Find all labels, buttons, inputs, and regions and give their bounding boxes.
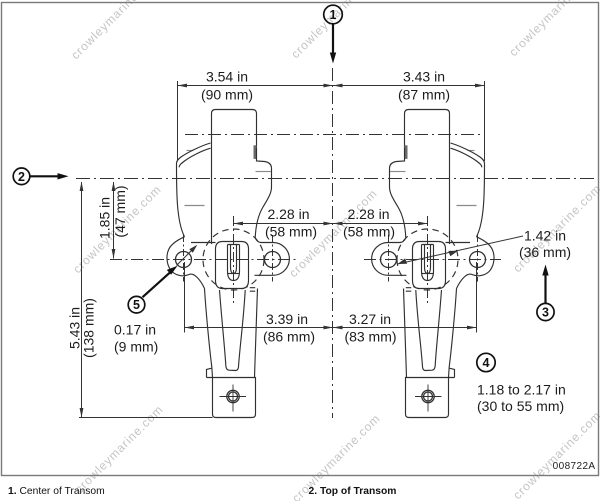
svg-text:1.85 in: 1.85 in (97, 197, 113, 239)
svg-text:5: 5 (133, 298, 140, 312)
dim line 5.43 vertical (81, 182, 83, 418)
foot bolt crosshair (220, 385, 247, 412)
arrowhead 1.42 upper-right (448, 251, 458, 257)
svg-text:(58 mm): (58 mm) (343, 223, 395, 239)
gray tick right (256, 171, 272, 173)
foot bolt inner (229, 392, 238, 401)
right bracket left ear hole vertical tick (388, 235, 390, 282)
svg-text:(90 mm): (90 mm) (201, 87, 253, 103)
svg-text:(83 mm): (83 mm) (344, 328, 396, 344)
leg joint ticks (250, 288, 255, 292)
left wing upper curve (177, 143, 211, 164)
svg-text:(9 mm): (9 mm) (114, 339, 158, 355)
left bracket right step and neck (255, 148, 271, 238)
arrowhead 1.42 lower-left (398, 258, 408, 264)
dim line 1.85 vertical (113, 182, 115, 259)
svg-text:1: 1 (330, 8, 337, 22)
callouts (13, 5, 554, 371)
right slot vertical centerline (427, 216, 429, 304)
svg-text:2.28 in: 2.28 in (347, 206, 389, 222)
gray tick left (185, 205, 205, 207)
right bracket hole horizontal centerline (364, 259, 501, 261)
left ear hole (176, 252, 192, 268)
leader 1.42 (398, 236, 524, 264)
arrowhead 2.28L right (324, 222, 334, 226)
left bracket hole horizontal centerline (110, 259, 299, 261)
svg-text:3.27 in: 3.27 in (349, 311, 391, 327)
left ear hole vertical tick (183, 235, 185, 282)
svg-text:(58 mm): (58 mm) (265, 223, 317, 239)
arrowhead 3.43 right (475, 84, 485, 88)
svg-text:(36 mm): (36 mm) (519, 244, 571, 260)
svg-text:3.39 in: 3.39 in (266, 311, 308, 327)
svg-text:(138 mm): (138 mm) (81, 298, 97, 358)
svg-text:1. Center of Transom: 1. Center of Transom (8, 486, 105, 497)
left ear lobe (167, 237, 205, 289)
left wing outer edge (177, 164, 185, 237)
callout 2 arrow (30, 175, 63, 177)
dim line 3.27 (333, 327, 477, 329)
slot inner (231, 245, 237, 274)
dim line 3.43 (333, 85, 485, 87)
svg-text:1.18 to 2.17 in: 1.18 to 2.17 in (477, 382, 566, 398)
dashed cut circle (203, 229, 264, 290)
svg-text:0.17 in: 0.17 in (114, 322, 156, 338)
extension line right 3.43 (484, 81, 486, 161)
arrowhead 2.28R left (333, 222, 343, 226)
upper bolt hole horizontal centerline (185, 134, 485, 136)
arrowhead 2.28R right (418, 222, 428, 226)
left slot vertical centerline (233, 216, 235, 304)
brackets (167, 110, 494, 418)
dimensions (79, 81, 523, 418)
callout circle 2 (13, 168, 30, 185)
svg-text:3.43 in: 3.43 in (403, 69, 445, 85)
gray tick upper-left (187, 150, 194, 152)
arrowhead 3.54 right (324, 84, 334, 88)
svg-text:(30 to 55 mm): (30 to 55 mm) (477, 398, 564, 414)
right bracket right ear hole vertical tick (477, 235, 479, 282)
foot bolt outer (227, 390, 239, 402)
leg V slot (220, 290, 246, 371)
callout 1 arrow (332, 24, 334, 58)
svg-text:(47 mm): (47 mm) (112, 185, 128, 237)
svg-text:2.28 in: 2.28 in (267, 206, 309, 222)
arrowhead 3.54 left (178, 84, 188, 88)
slot tick (228, 273, 239, 275)
foot box (213, 378, 256, 418)
centerlines (76, 68, 596, 418)
left bracket dark pin bar (254, 145, 257, 159)
callout 3 arrow (544, 270, 546, 303)
slot outer (228, 245, 240, 281)
dimension texts (67, 69, 596, 473)
arrowhead 3.27 left (333, 326, 343, 330)
dimension arrowheads (80, 84, 485, 418)
svg-text:4: 4 (483, 356, 490, 370)
center of transom vertical centerline (332, 68, 334, 418)
left wing lower curve (179, 148, 210, 167)
top of transom horizontal centerline (76, 178, 596, 180)
left bracket upper column (212, 110, 257, 245)
right ear stadium (255, 238, 290, 275)
svg-text:1.42 in: 1.42 in (524, 227, 566, 243)
dim line 3.54 (178, 85, 334, 87)
right ear hole (265, 252, 281, 268)
dim line 2.28 right (333, 223, 428, 225)
plate web top edge (191, 242, 216, 244)
extension line 3.27 (476, 262, 478, 333)
svg-text:(87 mm): (87 mm) (398, 87, 450, 103)
arrowhead 3.27 right (467, 326, 477, 330)
svg-text:3: 3 (542, 306, 549, 320)
extension line left 3.54 (177, 81, 179, 161)
callout circle 5 (128, 296, 145, 313)
callout circle 3 (537, 303, 554, 320)
dim line 3.39 (185, 327, 334, 329)
arrowhead 3.43 left (333, 84, 343, 88)
svg-text:2. Top of Transom: 2. Top of Transom (309, 486, 397, 497)
leg outer right (255, 289, 258, 378)
arrowhead 3.39 left (185, 326, 195, 330)
dim line 2.28 left (234, 223, 334, 225)
svg-text:2: 2 (18, 170, 25, 184)
arrowhead 3.39 right (324, 326, 334, 330)
arrowhead 5.43 down (80, 408, 84, 418)
legend (8, 486, 396, 497)
leg outer left (205, 289, 213, 378)
svg-text:(86 mm): (86 mm) (263, 328, 315, 344)
extension line 3.39 (184, 262, 186, 333)
svg-text:008722A: 008722A (553, 461, 596, 472)
callout circle 4 (477, 353, 495, 371)
thin offset arrow at left ear (177, 248, 195, 266)
arrowhead 1.85 up (112, 182, 116, 192)
foot bottom extension line (79, 417, 213, 419)
left bracket right ear hole vertical tick (272, 235, 274, 282)
svg-text:3.54 in: 3.54 in (206, 69, 248, 85)
callout circle 1 (324, 5, 343, 24)
arrowhead 2.28L left (234, 222, 244, 226)
right bracket (mirrored copy) (372, 110, 494, 418)
callout 5 arrow (143, 270, 173, 297)
plate boss (216, 242, 249, 289)
foot tab (207, 368, 213, 377)
arrowhead 5.43 up (80, 182, 84, 192)
arrowhead 1.85 down (112, 249, 116, 259)
